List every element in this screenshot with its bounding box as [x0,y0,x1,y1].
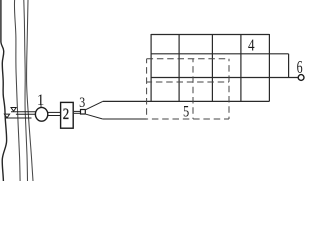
dashed group rect top edge [147,58,229,60]
hydrant circle 6 [298,75,304,81]
label 1 leader tick [40,105,42,108]
nozzle expansion upper line [86,101,103,109]
svg-text:5: 5 [183,103,189,120]
pump U1 circle [35,107,47,121]
grid vertical 3 [211,35,213,102]
river line 3 [24,0,28,181]
field grid bottom line (also main pipe upper line) [103,100,270,102]
grid vertical 5 (right edge) [268,34,270,101]
suction pipe second line [16,113,35,115]
valve square 3 [81,110,86,115]
water level symbol (lower triangle) [4,114,9,118]
grid vertical 2 [178,35,180,102]
pipe box2 to valve3 lower [74,112,80,114]
water surface line at river [5,117,31,119]
grid top line [151,34,269,36]
svg-text:2: 2 [63,105,69,123]
dashed divider vertical [192,59,194,119]
nozzle expansion lower line [86,114,103,119]
filter box 2 [61,102,74,128]
dashed divider horizontal [147,81,229,83]
grid row line 1-2 (extends right) [151,53,289,55]
dashed group rect left edge [146,59,148,119]
grid vertical 1 [150,34,152,101]
river bank line 1 [1,0,7,181]
grid row line 2-3 (extends to hydrant) [151,77,298,79]
dashed group rect right edge [228,59,230,119]
main pipe lower line [103,118,148,120]
svg-text:3: 3 [79,95,85,111]
water level symbol (upper triangle) [11,108,16,112]
svg-text:6: 6 [297,57,303,77]
river line 4 [27,0,33,181]
connector vertical to hydrant branch [288,54,290,78]
pipe pump to box2 upper [48,111,61,113]
svg-text:4: 4 [248,36,255,55]
river line 2 [14,0,20,181]
grid vertical 4 [240,35,242,102]
svg-text:1: 1 [37,92,45,109]
dashed group rect bottom edge [147,118,229,120]
pipe pump to box2 lower [48,115,61,117]
pipe box2 to valve3 upper [74,110,80,112]
suction pipe upper line [11,111,36,113]
